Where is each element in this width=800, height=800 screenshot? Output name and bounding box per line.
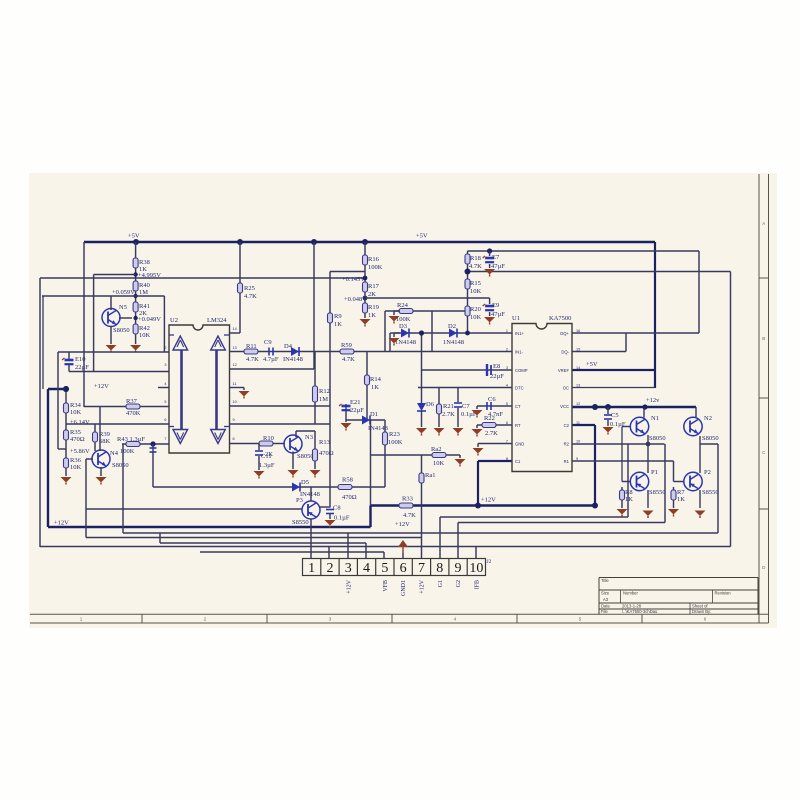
svg-text:9: 9 (576, 457, 578, 461)
svg-text:+12v: +12v (646, 397, 660, 404)
svg-text:OC: OC (563, 386, 569, 391)
svg-text:N4: N4 (110, 450, 119, 457)
svg-text:N3: N3 (305, 434, 313, 441)
svg-text:8: 8 (233, 437, 235, 441)
svg-text:R7: R7 (677, 489, 685, 496)
svg-text:10: 10 (576, 440, 580, 444)
svg-text:DQ+: DQ+ (560, 331, 569, 336)
svg-text:DQ-: DQ- (561, 350, 569, 355)
svg-text:4.7K: 4.7K (244, 293, 257, 300)
svg-text:1K: 1K (625, 496, 633, 503)
svg-text:GND1: GND1 (401, 580, 407, 596)
svg-text:Title: Title (601, 578, 609, 583)
svg-text:470Ω: 470Ω (319, 450, 334, 457)
svg-text:CT: CT (515, 404, 521, 409)
svg-text:10K: 10K (70, 464, 82, 471)
svg-text:R15: R15 (470, 280, 481, 287)
svg-text:1.3µF: 1.3µF (259, 462, 275, 469)
svg-text:1K: 1K (371, 384, 379, 391)
svg-text:C2: C2 (564, 423, 570, 428)
svg-text:16: 16 (576, 329, 580, 333)
svg-text:100K: 100K (388, 439, 403, 446)
svg-text:1N4148: 1N4148 (443, 339, 464, 346)
svg-text:E8: E8 (493, 363, 500, 370)
svg-text:8: 8 (506, 457, 508, 461)
svg-text:R40: R40 (139, 282, 150, 289)
svg-text:DTC: DTC (515, 386, 524, 391)
svg-text:VFB: VFB (383, 580, 389, 592)
svg-text:E9: E9 (492, 302, 499, 309)
svg-text:E7: E7 (492, 254, 500, 261)
svg-text:IN4148: IN4148 (283, 356, 303, 363)
svg-text:11: 11 (576, 421, 580, 425)
svg-text:4.7K: 4.7K (403, 512, 416, 519)
svg-text:0.1µF: 0.1µF (610, 421, 626, 428)
svg-text:47µF: 47µF (491, 263, 505, 270)
svg-text:Date: Date (601, 604, 611, 609)
svg-text:2.7K: 2.7K (442, 411, 455, 418)
svg-text:4.7K: 4.7K (469, 263, 482, 270)
svg-text:R34: R34 (70, 402, 82, 409)
svg-text:Revision: Revision (715, 591, 732, 596)
svg-text:Sheet of: Sheet of (692, 604, 708, 609)
svg-text:IFB: IFB (474, 580, 480, 589)
svg-text:2: 2 (164, 346, 166, 350)
svg-text:R14: R14 (370, 376, 382, 383)
svg-text:22µF: 22µF (75, 364, 89, 371)
svg-text:3: 3 (506, 366, 508, 370)
svg-text:R59: R59 (341, 342, 352, 349)
svg-text:R25: R25 (244, 285, 255, 292)
svg-text:470K: 470K (126, 410, 141, 417)
svg-text:9: 9 (455, 561, 462, 576)
svg-text:4.7K: 4.7K (342, 356, 355, 363)
svg-text:S8050: S8050 (112, 462, 129, 469)
svg-text:C6: C6 (488, 396, 496, 403)
svg-text:+12V: +12V (94, 383, 109, 390)
svg-text:+12V: +12V (395, 521, 410, 528)
svg-text:R37: R37 (126, 398, 138, 405)
svg-text:R41: R41 (139, 303, 150, 310)
svg-text:1K: 1K (677, 496, 685, 503)
svg-text:Size: Size (601, 591, 610, 596)
svg-text:3: 3 (345, 561, 352, 576)
svg-text:+5.86V: +5.86V (70, 448, 90, 455)
svg-text:VREF: VREF (558, 368, 570, 373)
svg-text:6: 6 (400, 561, 407, 576)
svg-text:P3: P3 (296, 497, 303, 504)
svg-text:+12V: +12V (54, 520, 69, 527)
svg-text:R8: R8 (625, 489, 633, 496)
svg-text:1: 1 (308, 561, 315, 576)
svg-text:R10: R10 (263, 435, 274, 442)
svg-text:C1: C1 (515, 459, 521, 464)
svg-text:S8050: S8050 (113, 327, 130, 334)
svg-text:R36: R36 (70, 457, 82, 464)
svg-text:7: 7 (506, 440, 508, 444)
svg-text:10: 10 (469, 561, 483, 576)
svg-text:P2: P2 (704, 469, 711, 476)
svg-text:14: 14 (233, 327, 237, 331)
svg-text:R11: R11 (246, 343, 257, 350)
svg-text:C8: C8 (333, 505, 341, 512)
svg-text:+0.059V: +0.059V (112, 289, 135, 296)
svg-text:R21: R21 (443, 403, 454, 410)
svg-text:2K: 2K (368, 291, 376, 298)
svg-text:E21: E21 (350, 399, 360, 406)
svg-text:A: A (762, 221, 765, 226)
svg-text:+5V: +5V (586, 361, 598, 368)
svg-text:E10: E10 (75, 356, 85, 363)
svg-text:1K: 1K (334, 321, 342, 328)
svg-text:+5V: +5V (128, 233, 140, 240)
svg-text:RT: RT (515, 423, 521, 428)
svg-text:Drawn By:: Drawn By: (692, 609, 711, 614)
svg-text:11: 11 (233, 382, 237, 386)
svg-text:IN4148: IN4148 (300, 491, 320, 498)
svg-text:VCC: VCC (560, 404, 569, 409)
svg-text:D1: D1 (370, 411, 378, 418)
svg-text:R33: R33 (402, 496, 413, 503)
svg-text:1N4148: 1N4148 (395, 339, 416, 346)
svg-text:N5: N5 (119, 304, 127, 311)
svg-text:+0.145V: +0.145V (342, 276, 365, 283)
svg-text:N1: N1 (651, 415, 659, 422)
svg-text:47µF: 47µF (491, 311, 505, 318)
svg-text:S8550: S8550 (702, 489, 719, 496)
svg-text:4: 4 (164, 382, 166, 386)
svg-text:2: 2 (506, 348, 508, 352)
svg-text:8: 8 (436, 561, 443, 576)
svg-text:S8050: S8050 (649, 435, 666, 442)
svg-text:R17: R17 (368, 283, 380, 290)
svg-text:D4: D4 (284, 343, 293, 350)
svg-text:R1: R1 (564, 459, 570, 464)
svg-text:S8550: S8550 (292, 519, 309, 526)
svg-text:C7: C7 (462, 403, 470, 410)
svg-text:R2: R2 (564, 442, 570, 447)
svg-text:R24: R24 (397, 302, 409, 309)
svg-text:D5: D5 (301, 479, 309, 486)
svg-text:0.1µF: 0.1µF (334, 515, 350, 522)
svg-text:R43 1.3µF: R43 1.3µF (117, 436, 145, 443)
svg-text:IN1-: IN1- (515, 350, 524, 355)
svg-text:470Ω: 470Ω (70, 436, 85, 443)
svg-text:5: 5 (381, 561, 388, 576)
svg-text:D3: D3 (399, 323, 407, 330)
svg-text:R22: R22 (484, 415, 495, 422)
svg-text:5: 5 (164, 400, 166, 404)
svg-text:10K: 10K (433, 460, 445, 467)
svg-text:14: 14 (576, 366, 580, 370)
svg-text:4: 4 (363, 561, 370, 576)
svg-text:6: 6 (164, 418, 166, 422)
svg-text:GND: GND (515, 442, 524, 447)
svg-text:100K: 100K (368, 264, 383, 271)
svg-text:R20: R20 (470, 306, 481, 313)
svg-text:10: 10 (233, 400, 237, 404)
svg-text:12: 12 (233, 363, 237, 367)
svg-text:10K: 10K (70, 409, 82, 416)
svg-text:5: 5 (506, 402, 508, 406)
svg-text:Ra1: Ra1 (425, 472, 435, 479)
svg-text:G1: G1 (438, 580, 444, 587)
svg-text:4: 4 (506, 384, 508, 388)
svg-text:G2: G2 (456, 580, 462, 587)
svg-text:Number: Number (623, 591, 638, 596)
svg-text:10K: 10K (470, 288, 482, 295)
svg-text:A3: A3 (603, 597, 609, 602)
svg-text:15: 15 (576, 348, 580, 352)
svg-text:B: B (762, 336, 765, 341)
svg-text:Ra2: Ra2 (431, 446, 441, 453)
svg-text:N2: N2 (704, 415, 712, 422)
svg-text:1: 1 (506, 329, 508, 333)
svg-text:S8050: S8050 (702, 435, 719, 442)
svg-text:C5: C5 (611, 412, 619, 419)
svg-text:470Ω: 470Ω (342, 494, 357, 501)
svg-text:File: File (601, 609, 608, 614)
svg-text:7: 7 (164, 437, 166, 441)
svg-text:LM324: LM324 (207, 317, 227, 324)
svg-text:R35: R35 (70, 429, 81, 436)
svg-text:R12: R12 (319, 388, 330, 395)
svg-text:COMP: COMP (515, 368, 528, 373)
svg-text:2: 2 (326, 561, 333, 576)
svg-text:7: 7 (418, 561, 425, 576)
svg-text:2.7K: 2.7K (485, 430, 498, 437)
svg-text:100K: 100K (120, 448, 135, 455)
svg-text:R38: R38 (139, 259, 150, 266)
svg-text:1K: 1K (368, 312, 376, 319)
svg-text:+12V: +12V (419, 579, 425, 593)
svg-text:+5V: +5V (416, 233, 428, 240)
svg-text:R42: R42 (139, 325, 150, 332)
svg-text:R18: R18 (470, 255, 481, 262)
svg-text:C11: C11 (261, 453, 272, 460)
svg-text:R16: R16 (368, 256, 380, 263)
svg-text:D6: D6 (426, 401, 435, 408)
svg-text:C9: C9 (264, 339, 272, 346)
svg-text:R58: R58 (342, 477, 353, 484)
svg-text:12: 12 (576, 402, 580, 406)
svg-text:2013-1-28: 2013-1-28 (622, 604, 642, 609)
svg-text:P1: P1 (651, 469, 658, 476)
svg-text:+6.14V: +6.14V (70, 419, 90, 426)
svg-text:J2: J2 (487, 559, 492, 565)
svg-text:22µF: 22µF (350, 407, 364, 414)
svg-text:+0.049V: +0.049V (138, 316, 161, 323)
svg-text:3: 3 (164, 363, 166, 367)
svg-text:4.7µF: 4.7µF (263, 356, 279, 363)
svg-text:9: 9 (233, 418, 235, 422)
svg-text:10K: 10K (139, 332, 151, 339)
svg-text:13: 13 (233, 346, 237, 350)
svg-text:6: 6 (506, 421, 508, 425)
svg-text:+12V: +12V (346, 579, 352, 593)
svg-text:+4.995V: +4.995V (138, 272, 161, 279)
svg-text:D2: D2 (448, 323, 456, 330)
svg-text:R9: R9 (334, 313, 342, 320)
svg-text:10K: 10K (470, 314, 482, 321)
svg-text:KA7500: KA7500 (549, 315, 571, 322)
svg-text:+0.048V: +0.048V (344, 296, 367, 303)
svg-text:R19: R19 (368, 304, 379, 311)
svg-text:\..\KA7500-3chDau: \..\KA7500-3chDau (622, 609, 658, 614)
svg-text:1M: 1M (319, 396, 328, 403)
svg-text:+12V: +12V (481, 497, 496, 504)
svg-text:U2: U2 (170, 317, 178, 324)
svg-text:1M: 1M (139, 289, 148, 296)
svg-text:13: 13 (576, 384, 580, 388)
svg-text:R23: R23 (389, 431, 400, 438)
svg-text:S8050: S8050 (297, 453, 314, 460)
svg-text:S8550: S8550 (649, 489, 666, 496)
svg-text:IN1+: IN1+ (515, 331, 525, 336)
svg-text:4.7K: 4.7K (246, 356, 259, 363)
svg-text:R13: R13 (319, 439, 330, 446)
svg-text:U1: U1 (512, 315, 520, 322)
svg-text:22µF: 22µF (490, 373, 504, 380)
